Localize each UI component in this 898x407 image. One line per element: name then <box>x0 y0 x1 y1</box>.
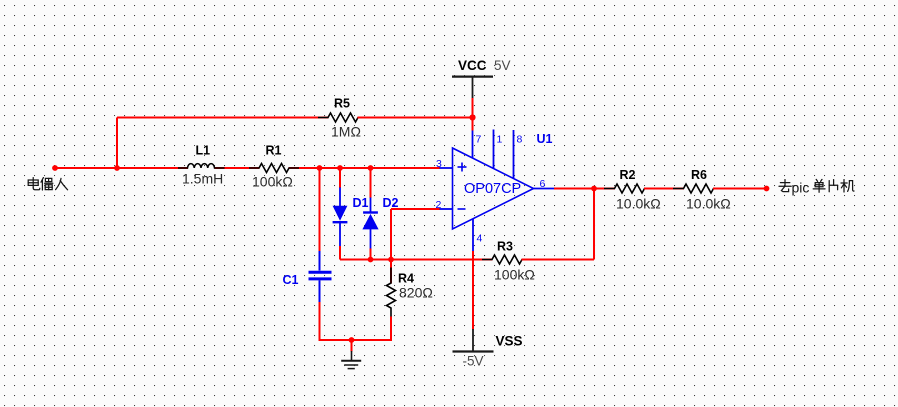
pin 8 number <box>517 134 523 146</box>
resistor R1 <box>249 164 299 173</box>
wire feedback up <box>593 189 595 260</box>
wire D1 bottom <box>339 246 341 260</box>
label U1 refdes <box>537 132 553 146</box>
node 去pic单片机 label <box>779 179 854 192</box>
svg-text:4: 4 <box>477 233 483 245</box>
op-amp plus mark <box>458 163 467 172</box>
label R5 value 1MΩ <box>331 124 361 140</box>
svg-text:R6: R6 <box>691 168 707 182</box>
label R4 value 820Ω <box>399 285 433 301</box>
svg-text:2: 2 <box>436 199 442 211</box>
label L1 refdes <box>196 144 211 158</box>
pin 7 number <box>476 134 482 146</box>
resistor R6 <box>673 184 725 193</box>
svg-text:6: 6 <box>540 178 546 190</box>
svg-text:L1: L1 <box>196 144 211 158</box>
svg-text:1: 1 <box>497 134 503 146</box>
label R2 value 10.0kΩ <box>616 196 661 212</box>
svg-text:100kΩ: 100kΩ <box>494 267 535 283</box>
svg-text:100kΩ: 100kΩ <box>252 174 293 190</box>
inductor L1 <box>178 164 225 168</box>
svg-text:5V: 5V <box>494 58 511 73</box>
junction J7 ground node <box>349 337 355 343</box>
wire C1 top <box>319 168 321 252</box>
svg-text:OP07CP: OP07CP <box>464 181 521 197</box>
svg-text:R1: R1 <box>266 144 282 158</box>
node input terminal <box>52 165 58 171</box>
capacitor C1 <box>309 251 332 302</box>
op-amp minus mark <box>458 208 466 210</box>
label R3 refdes <box>497 240 513 254</box>
svg-text:D1: D1 <box>353 196 369 210</box>
svg-text:1MΩ: 1MΩ <box>331 124 361 140</box>
svg-text:8: 8 <box>517 134 523 146</box>
wire R5 left <box>117 117 329 119</box>
pin 6 number <box>540 178 546 190</box>
wire pin4 to VSS <box>472 251 474 330</box>
pin 3 stub <box>440 167 453 169</box>
junction J8 VCC node <box>469 114 475 120</box>
resistor R4 <box>387 268 396 318</box>
label R3 value 100kΩ <box>494 267 535 283</box>
node 电偶入 label <box>28 178 67 190</box>
power VCC symbol <box>452 77 493 99</box>
svg-text:R5: R5 <box>334 97 350 111</box>
junction J5 D2 anode node <box>368 257 374 263</box>
label R4 refdes <box>398 272 414 286</box>
junction J6 inverting node <box>388 257 394 263</box>
pin 2 number <box>436 199 442 211</box>
net VCC label <box>458 58 487 73</box>
label R6 value 10.0kΩ <box>686 196 731 212</box>
net VCC value 5V <box>494 58 511 73</box>
power VSS symbol <box>453 329 494 352</box>
wire C1 bottom <box>319 302 321 341</box>
pin 4 stub <box>472 219 474 252</box>
svg-text:pic: pic <box>792 180 810 196</box>
wire main input line <box>55 167 440 169</box>
net VSS label <box>496 334 523 349</box>
label L1 value 1.5mH <box>182 171 223 187</box>
pin 6 stub <box>534 188 555 190</box>
wire R3 left <box>391 259 493 261</box>
wire diode bottom bus <box>340 259 391 261</box>
wire R4 bottom <box>390 317 392 342</box>
wire R5 right to VCC node <box>358 117 473 119</box>
label OP07CP <box>464 181 521 197</box>
label R1 refdes <box>266 144 282 158</box>
pin 3 number <box>436 158 442 170</box>
svg-text:1.5mH: 1.5mH <box>182 171 223 187</box>
ground <box>341 351 361 369</box>
junction J4 D2 branch <box>368 165 374 171</box>
wire D2 bottom <box>370 249 372 260</box>
pin 2 stub <box>440 208 453 210</box>
diode D2 <box>362 198 378 250</box>
label D1 refdes <box>353 196 369 210</box>
svg-text:R4: R4 <box>398 272 414 286</box>
svg-text:U1: U1 <box>537 132 553 146</box>
wire inverting node vertical <box>390 209 392 260</box>
wire output <box>554 188 615 190</box>
wire R4 top <box>390 260 392 284</box>
wire D2 top <box>370 168 372 198</box>
resistor R5 <box>318 113 368 122</box>
resistor R3 <box>482 255 533 264</box>
label R6 refdes <box>691 168 707 182</box>
pin 4 number <box>477 233 483 245</box>
wire R3 right <box>522 259 595 261</box>
wire to pin 2 <box>391 208 440 210</box>
svg-text:820Ω: 820Ω <box>399 285 433 301</box>
pin 8 stub <box>513 130 515 179</box>
junction J9 output node <box>591 186 597 192</box>
wire D1 top <box>339 168 341 188</box>
svg-text:R2: R2 <box>620 168 636 182</box>
svg-text:10.0kΩ: 10.0kΩ <box>686 196 731 212</box>
svg-text:VCC: VCC <box>458 58 487 73</box>
svg-text:7: 7 <box>476 134 482 146</box>
svg-text:C1: C1 <box>283 273 299 287</box>
pin 1 number <box>497 134 503 146</box>
svg-text:D2: D2 <box>383 196 399 210</box>
op-amp U1 <box>453 148 534 229</box>
svg-text:VSS: VSS <box>496 334 523 349</box>
junction J3 D1 branch <box>337 165 343 171</box>
wire ground stub <box>351 340 353 352</box>
pin 1 stub <box>493 130 495 169</box>
label R1 value 100kΩ <box>252 174 293 190</box>
wire feedback branch vertical <box>116 118 118 169</box>
label C1 refdes <box>283 273 299 287</box>
label D2 refdes <box>383 196 399 210</box>
svg-text:R3: R3 <box>497 240 513 254</box>
wire R2 to R6 <box>644 188 684 190</box>
net VSS value -5V <box>463 354 484 369</box>
resistor R2 <box>604 184 656 193</box>
wire output terminal <box>713 188 767 190</box>
node output terminal <box>764 186 770 192</box>
wire ground bus <box>319 339 393 341</box>
label R2 refdes <box>620 168 636 182</box>
wire VCC down <box>472 98 474 131</box>
svg-text:-5V: -5V <box>463 354 484 369</box>
svg-text:10.0kΩ: 10.0kΩ <box>616 196 661 212</box>
label R5 refdes <box>334 97 350 111</box>
pin 7 stub <box>472 130 474 158</box>
node pic text <box>792 180 810 196</box>
diode D1 <box>333 188 348 247</box>
junction J2 C1 branch <box>317 165 323 171</box>
junction J1 feedback branch <box>114 165 120 171</box>
svg-text:3: 3 <box>436 158 442 170</box>
